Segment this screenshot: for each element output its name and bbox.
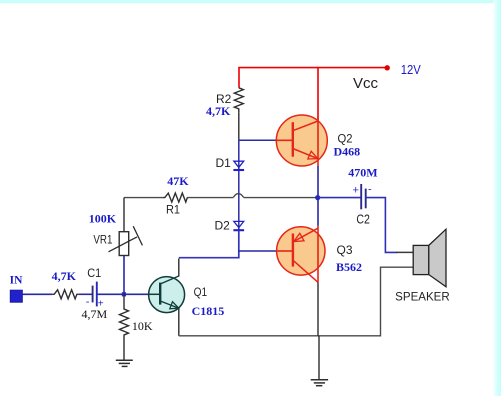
diode D2 — [233, 221, 244, 230]
wire red Vcc to Q2 collector — [317, 68, 319, 122]
svg-text:12V: 12V — [401, 62, 421, 77]
svg-text:Vcc: Vcc — [353, 75, 379, 92]
transistor Q3 — [277, 226, 325, 282]
svg-text:IN: IN — [10, 274, 23, 286]
svg-text:-: - — [368, 184, 372, 196]
wire bottom rail — [179, 267, 414, 336]
node 12V terminal dot — [385, 65, 390, 70]
ground (left) — [116, 360, 133, 366]
wire Vcc rail red — [239, 68, 387, 88]
wire Q2 emitter to output node — [317, 166, 319, 198]
svg-text:C1815: C1815 — [192, 304, 225, 318]
node output junction dot — [315, 195, 320, 200]
capacitor C2 — [360, 184, 362, 209]
ground (right) — [311, 380, 328, 386]
transistor Q1 — [149, 276, 185, 313]
wire Q1 emitter down — [178, 308, 180, 336]
resistor R1 47K — [163, 193, 187, 202]
svg-text:4,7M: 4,7M — [82, 307, 108, 321]
svg-text:R1: R1 — [166, 203, 180, 217]
wire to speaker top terminal — [396, 251, 413, 253]
wire D2 node to Q3 base — [239, 250, 277, 252]
diode D1 — [233, 161, 244, 170]
wire collector jog to D2 node — [179, 230, 239, 258]
svg-text:D2: D2 — [215, 218, 231, 232]
wire node through D1 and D2 (passes under hop) — [238, 140, 240, 230]
wire Q1 collector up — [178, 259, 180, 277]
svg-text:47K: 47K — [167, 174, 189, 188]
svg-text:Q2: Q2 — [338, 132, 353, 146]
capacitor C1 — [92, 286, 94, 303]
svg-text:10K: 10K — [132, 319, 153, 333]
terminal IN square — [10, 290, 22, 302]
svg-text:B562: B562 — [336, 260, 362, 274]
wire R2 bottom to base node — [238, 112, 240, 140]
potentiometer VR1 box — [119, 232, 129, 256]
speaker SPEAKER — [413, 229, 446, 287]
svg-text:VR1: VR1 — [93, 233, 112, 247]
node base junction dot — [122, 292, 126, 296]
wire output node down to Q3 — [317, 198, 319, 226]
wire main node horizontal (left black part with hop) — [124, 194, 318, 198]
wire node to VR1 top — [123, 198, 125, 232]
svg-text:C1: C1 — [87, 266, 101, 280]
wire resistor to C1 — [78, 293, 92, 295]
resistor 10K — [120, 294, 129, 360]
wire VR1 bottom to base junction — [123, 256, 125, 295]
wire rail to ground — [318, 336, 320, 380]
svg-text:470M: 470M — [348, 166, 377, 180]
svg-text:4,7K: 4,7K — [206, 104, 231, 118]
wire C2 to speaker top — [366, 198, 397, 253]
window edge top — [0, 0, 501, 3]
wire IN to R input — [22, 293, 52, 295]
wire junction to Q1 base — [124, 293, 150, 295]
transistor Q2 — [276, 115, 327, 166]
svg-text:D468: D468 — [334, 145, 361, 159]
svg-text:D1: D1 — [216, 156, 232, 170]
resistor R2 — [234, 88, 243, 113]
wire node to C2 — [318, 197, 361, 199]
svg-text:C2: C2 — [356, 212, 370, 227]
svg-text:+: + — [353, 185, 359, 197]
svg-text:100K: 100K — [89, 212, 117, 226]
svg-text:SPEAKER: SPEAKER — [395, 291, 450, 303]
resistor 4,7K input — [52, 290, 78, 299]
wire Q3 collector down to rail and ground — [317, 282, 319, 336]
svg-text:Q1: Q1 — [194, 285, 208, 299]
wire C1 to junction — [97, 293, 124, 295]
potentiometer VR1 arrow — [109, 237, 138, 252]
wire Q2 base — [239, 139, 277, 141]
svg-text:4,7K: 4,7K — [52, 269, 77, 283]
svg-text:Q3: Q3 — [337, 243, 353, 257]
